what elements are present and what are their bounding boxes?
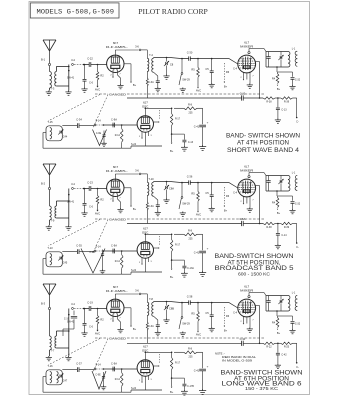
svg-text:R5: R5 [191, 192, 195, 196]
loop return wire (band 4 oscillator) [43, 133, 131, 149]
annotation text: band-switch position 4 [226, 133, 300, 155]
svg-text:C-13A: C-13A [187, 267, 194, 270]
svg-text:C-6A: C-6A [148, 205, 154, 208]
tank padder capacitor (band 4 section) [266, 52, 270, 68]
ground under V1 (band 5 section) [117, 199, 123, 213]
lead to C minus (band 5 section) [293, 224, 299, 250]
svg-text:R-38: R-38 [266, 226, 272, 229]
mixer grid cap (band 4 section) [248, 49, 266, 54]
grid shunt capacitor C-6 (band 6 section) [81, 308, 93, 337]
svg-text:AVC: AVC [95, 332, 100, 336]
svg-text:C-38: C-38 [187, 295, 193, 299]
capacitor C-32 (band 6 section) [278, 316, 301, 334]
svg-text:C-36: C-36 [187, 175, 193, 179]
ground right of coil (band 4 section) [65, 65, 71, 96]
coupling capacitor C-36 (band 5 section) [181, 175, 229, 185]
antenna A1 (band 4 section) [41, 40, 56, 62]
padder trimmer C45 (band 5 oscillator) [58, 255, 68, 264]
ground under mixer (band 5 section) [247, 200, 253, 212]
title box [30, 3, 119, 18]
svg-text:B+: B+ [133, 83, 137, 87]
capacitor C-19 (band 6 section) [63, 311, 77, 337]
resistor R4 (band 4 section) [272, 72, 281, 91]
svg-text:T-3: T-3 [51, 87, 55, 91]
coil winding in loop (band 5 oscillator) [50, 254, 52, 266]
capacitor C-13 (band 4 oscillator) [172, 134, 194, 151]
capacitor C-22 (band 4 section) [84, 57, 107, 67]
i-f coupling bus wire (band 6 section) [127, 343, 263, 345]
svg-text:S-24: S-24 [131, 387, 137, 390]
antenna coil L-1 (band 4 section) [292, 48, 298, 67]
oscillator plate arrow (band 4 oscillator) [154, 110, 160, 123]
V1 plate lead to B+ (band 4 section) [124, 64, 137, 87]
svg-text:C-17B: C-17B [187, 385, 194, 388]
svg-text:235: 235 [189, 355, 194, 358]
svg-text:C-32: C-32 [295, 203, 301, 206]
tube 6J7 oscillator (band 4 oscillator) [137, 101, 153, 133]
antenna lead-in wire (band 6 section) [49, 295, 51, 307]
decoupling resistor R-25 (band 6 section) [275, 342, 293, 349]
svg-text:C-30: C-30 [187, 51, 193, 55]
bypass capacitor C-13 (band 4 section) [275, 98, 287, 123]
oscillator coil L-2 (band 4 section) [288, 52, 290, 68]
plate resistor R-17 (band 4 oscillator) [170, 108, 180, 142]
trimmer capacitor C8 (band 4 section) [163, 57, 173, 80]
plate resistor R-17 (band 6 oscillator) [170, 352, 180, 386]
capacitor C5 (band 5 section) [205, 182, 214, 212]
antenna coil secondary (band 4 section) [55, 67, 69, 87]
svg-text:T-10: T-10 [148, 177, 154, 181]
oscillator bottom bus (band 5 oscillator) [131, 269, 162, 274]
primary return resistor (band 5 section) [146, 196, 148, 224]
mixer input lead (band 5 section) [229, 183, 238, 195]
coil tap switch SW-41 (band 4 section) [67, 66, 75, 80]
oscillator cathode leads (band 4 oscillator) [139, 131, 153, 146]
oscillator cathode leads (band 6 oscillator) [139, 375, 153, 390]
svg-text:3-6: 3-6 [135, 169, 139, 173]
series capacitor C-34 (band 4 oscillator) [62, 118, 94, 129]
svg-text:B+: B+ [170, 149, 174, 153]
svg-text:IN MODEL G-509: IN MODEL G-509 [222, 358, 253, 362]
secondary bypass capacitor C-6A (band 5 section) [148, 196, 161, 216]
svg-text:R-22: R-22 [266, 346, 272, 349]
antenna connector (band 6 section) [48, 307, 50, 336]
svg-text:B+: B+ [224, 329, 228, 333]
svg-text:C-32: C-32 [295, 323, 301, 326]
svg-text:AVC: AVC [95, 212, 100, 216]
svg-text:R-F AMPL.: R-F AMPL. [106, 289, 128, 293]
coil tap switch SW-41 (band 6 section) [67, 314, 75, 332]
resistor R5 to AVC (band 5 section) [191, 183, 201, 217]
capacitor C-9A (band 4 oscillator) [111, 118, 117, 128]
svg-text:GANGED: GANGED [109, 92, 126, 96]
svg-text:C-4: C-4 [233, 312, 238, 315]
svg-text:C-4: C-4 [233, 192, 238, 195]
tube V1 cathode pins (band 6 section) [110, 314, 121, 322]
svg-text:T-16: T-16 [47, 364, 53, 368]
svg-text:S-24: S-24 [131, 269, 137, 272]
switch S-14 (band 4 oscillator) [94, 120, 137, 126]
band switch 3-4 (band 5 section) [71, 182, 84, 189]
capacitor C-32 (band 4 section) [278, 72, 301, 90]
antenna coil T-7 primary (band 6 section) [50, 336, 55, 353]
series capacitor C-5A (band 5 section) [239, 217, 245, 226]
tuning capacitor section C-9E (band 6 oscillator) [92, 371, 106, 390]
resistor R4 (band 5 section) [272, 196, 281, 215]
svg-text:R-25: R-25 [284, 346, 290, 349]
svg-text:R-17: R-17 [175, 119, 181, 121]
svg-text:RED BAND IN DIAL: RED BAND IN DIAL [222, 355, 257, 359]
tube 6L7 mixer (band 5 section) [238, 165, 256, 197]
tube 6L7 mixer (band 6 section) [238, 285, 256, 317]
AVC label left (band 5 section) [95, 212, 100, 216]
svg-text:C8: C8 [170, 63, 174, 67]
capacitor C-19 (band 6 section) [84, 301, 107, 311]
padder trimmer C44 (band 4 oscillator) [58, 129, 68, 138]
oscillator plate feed (band 5 oscillator) [145, 234, 173, 242]
svg-text:C47: C47 [63, 380, 68, 383]
svg-text:C44: C44 [63, 136, 68, 139]
switch SW-29 (band 4 section) [179, 59, 190, 93]
antenna lead-in wire (band 4 section) [49, 51, 51, 63]
band switch shaft (dashed) (band 6 section) [224, 307, 230, 333]
decoupling resistor R-39 (band 4 section) [275, 97, 293, 104]
loop return wire (band 6 oscillator) [43, 377, 131, 393]
svg-text:C-19: C-19 [87, 301, 93, 305]
capacitor C-32 (band 5 section) [278, 196, 301, 214]
svg-text:C-: C- [296, 245, 299, 249]
svg-text:C-: C- [296, 120, 299, 124]
ground under mixer (band 4 section) [247, 76, 253, 88]
svg-text:C-41: C-41 [194, 126, 200, 129]
mixer grid cap (band 5 section) [248, 173, 266, 178]
svg-text:R-38: R-38 [266, 100, 272, 103]
oscillator plate arrow (band 5 oscillator) [154, 236, 160, 249]
svg-text:235: 235 [189, 237, 194, 240]
capacitor C-23 (band 5 section) [84, 181, 107, 191]
svg-text:C-41: C-41 [194, 370, 200, 373]
svg-text:MIXER: MIXER [240, 169, 254, 173]
AVC label left (band 6 section) [95, 332, 100, 336]
B+ feed arrow (band 4 oscillator) [170, 143, 174, 153]
svg-text:AT 4TH POSITION: AT 4TH POSITION [237, 139, 289, 146]
ground under V1 (band 6 section) [117, 319, 123, 333]
grid shunt capacitor C-6 (band 5 section) [81, 188, 93, 217]
svg-text:3-6: 3-6 [135, 45, 139, 49]
coil winding in loop (band 4 oscillator) [50, 128, 52, 140]
series capacitor C-37 (band 6 oscillator) [62, 362, 94, 373]
series capacitor C-10 (band 6 section) [240, 337, 246, 346]
tube V1 cathode pins (band 4 section) [110, 70, 121, 78]
oscillator bottom bus (band 4 oscillator) [131, 143, 162, 148]
svg-text:C-37: C-37 [76, 362, 82, 366]
i-f coupling bus wire (band 4 section) [127, 97, 263, 99]
capacitor C5 (band 6 section) [205, 302, 214, 332]
svg-text:C-6: C-6 [89, 206, 94, 209]
secondary bypass capacitor C-6A (band 6 section) [148, 316, 161, 336]
svg-text:R-39: R-39 [284, 226, 290, 229]
svg-text:C-35: C-35 [76, 244, 82, 248]
ground right of coil (band 6 section) [65, 309, 71, 361]
tank lead to divider (band 6 section) [276, 310, 292, 316]
grid leak resistor R-8 (band 6 oscillator) [174, 348, 203, 359]
B+ feed arrow (band 6 oscillator) [170, 387, 174, 395]
interstage transformer T-8 primary (band 6 section) [141, 294, 153, 316]
antenna coil T-9 primary (band 5 section) [50, 206, 55, 223]
resistor R2 (band 4 section) [96, 64, 104, 88]
oscillator coil T-16 (band 6 oscillator) [46, 364, 62, 385]
coil winding in loop (band 6 oscillator) [50, 372, 59, 384]
mixer input lead (band 4 section) [229, 59, 238, 71]
ground right of coil (band 5 section) [65, 189, 71, 231]
svg-text:NOTE :-: NOTE :- [215, 351, 225, 355]
V1 plate lead to B+ (band 6 section) [124, 308, 137, 331]
tank lead to divider (band 5 section) [276, 190, 292, 196]
svg-text:B-3: B-3 [41, 302, 46, 306]
B+ feed arrow (band 5 oscillator) [170, 269, 174, 279]
antenna connector (band 4 section) [48, 63, 50, 71]
tank trimmer capacitor C-31 (band 5 section) [278, 176, 283, 192]
ground under primary (band 6 section) [46, 350, 52, 361]
svg-text:SW-41: SW-41 [67, 321, 75, 324]
grid resistor R-14 (band 4 oscillator) [115, 124, 123, 148]
svg-text:T-15: T-15 [47, 120, 53, 124]
svg-text:C-9A: C-9A [111, 244, 117, 248]
resistor R5 to AVC (band 4 section) [191, 59, 201, 93]
capacitor C-41 (band 5 oscillator) [194, 234, 209, 276]
decoupling resistor R-39 (band 5 section) [275, 222, 293, 229]
tube 6K7 R-F amplifier (band 5 section) [106, 165, 128, 197]
svg-text:C5: C5 [205, 67, 209, 71]
tuning capacitor section C-9E (band 4 oscillator) [93, 130, 107, 147]
tube 6K7 R-F amplifier (band 4 section) [106, 41, 128, 73]
svg-text:B+: B+ [277, 87, 281, 91]
ground under primary (band 5 section) [46, 220, 52, 230]
svg-text:B+: B+ [277, 211, 281, 215]
svg-text:R2: R2 [100, 74, 104, 78]
svg-text:C-14: C-14 [281, 234, 287, 237]
secondary bypass capacitor C-6A (band 4 section) [148, 72, 161, 92]
grid resistor R-14 (band 6 oscillator) [115, 368, 123, 392]
capacitor C-41 (band 6 oscillator) [194, 352, 209, 394]
svg-text:GANGED: GANGED [109, 336, 126, 340]
svg-text:C-32: C-32 [295, 79, 301, 82]
decoupling resistor R-38 (band 4 section) [263, 97, 275, 104]
bypass capacitor C-42 (band 6 section) [275, 343, 287, 368]
svg-text:T-7: T-7 [51, 349, 55, 353]
GANGED dashed gang line (band 5 section) [48, 217, 264, 253]
annotation text: band-switch position 6 [221, 370, 303, 392]
svg-text:C-5A: C-5A [239, 217, 245, 221]
svg-text:C-6A: C-6A [148, 325, 154, 328]
tube 6L7 mixer (band 4 section) [238, 41, 256, 73]
primary return resistor (band 4 section) [146, 72, 148, 99]
svg-text:R2: R2 [100, 198, 104, 202]
svg-text:C-9E: C-9E [96, 133, 102, 135]
annotation text: band-switch position 5 [215, 253, 295, 276]
decoupling resistor R-38 (band 5 section) [263, 222, 275, 229]
ground under primary (band 4 section) [46, 88, 52, 95]
svg-text:C-13: C-13 [188, 141, 194, 144]
trimmer capacitor C8A (band 5 section) [163, 181, 174, 204]
svg-text:B+: B+ [277, 331, 281, 335]
svg-text:AVC: AVC [196, 333, 201, 337]
svg-text:AVC: AVC [196, 213, 201, 217]
svg-text:SW-29: SW-29 [182, 79, 190, 82]
svg-text:B+: B+ [224, 209, 228, 213]
capacitor C-13A (band 5 oscillator) [172, 260, 195, 277]
svg-text:R-F AMPL.: R-F AMPL. [106, 169, 128, 173]
svg-text:+: + [207, 121, 209, 125]
switch SW-29 (band 6 section) [179, 303, 190, 337]
oscillator coil T-13 (band 5 oscillator) [46, 246, 62, 267]
capacitor C-9A (band 6 oscillator) [111, 362, 117, 372]
mixer cathode pins (band 4 section) [240, 72, 254, 81]
padder trimmer C47 (band 6 oscillator) [58, 373, 68, 382]
tube V1 grid cap lead (band 5 section) [115, 169, 141, 180]
oscillator plate feed (band 4 oscillator) [145, 108, 173, 116]
svg-text:R-14: R-14 [115, 134, 121, 137]
mixer plate lead (band 6 section) [256, 306, 260, 344]
band switch 3-4 (band 6 section) [71, 302, 84, 309]
tank trimmer capacitor C-31 (band 6 section) [278, 296, 283, 312]
svg-text:MIXER: MIXER [240, 45, 254, 49]
interstage transformer T-10 primary (band 5 section) [141, 174, 154, 196]
resistor R4 (band 6 section) [272, 316, 281, 335]
mixer cathode pins (band 5 section) [240, 196, 254, 205]
resistor R2 (band 5 section) [96, 188, 104, 212]
AVC label left (band 4 section) [95, 88, 100, 92]
tuning capacitor section C-9E (band 5 oscillator) [81, 249, 105, 274]
svg-text:R-14: R-14 [115, 378, 121, 381]
svg-text:C-: C- [296, 365, 299, 369]
svg-text:C-10: C-10 [240, 92, 246, 96]
svg-text:R-39: R-39 [284, 100, 290, 103]
ground under mixer (band 6 section) [247, 320, 253, 332]
resistor R2 (band 6 section) [96, 308, 104, 332]
svg-text:GANGED: GANGED [109, 217, 126, 221]
svg-text:B+: B+ [170, 275, 174, 279]
svg-text:C5: C5 [205, 311, 209, 315]
loop return wire (band 5 oscillator) [43, 259, 131, 275]
svg-text:S-14: S-14 [95, 246, 101, 249]
antenna A3 (band 6 section) [41, 284, 56, 306]
antenna connector (band 5 section) [48, 187, 50, 206]
svg-text:C-23: C-23 [87, 181, 93, 185]
svg-text:+: + [207, 247, 209, 251]
svg-text:C-34: C-34 [76, 118, 82, 122]
svg-text:R-17: R-17 [175, 363, 181, 365]
series capacitor C-10 (band 4 section) [240, 92, 246, 101]
svg-text:C-6: C-6 [89, 82, 94, 85]
tube V1 grid cap lead (band 6 section) [115, 289, 141, 300]
oscillator tank frame (band 4 section) [260, 52, 289, 68]
grid resistor R-14 (band 5 oscillator) [115, 250, 123, 274]
coupling capacitor C-38 (band 6 section) [181, 295, 229, 305]
svg-text:R-17: R-17 [175, 245, 181, 247]
svg-text:C-6: C-6 [89, 326, 94, 329]
switch S-14 (band 5 oscillator) [94, 246, 137, 252]
svg-text:C-9E: C-9E [89, 252, 95, 254]
antenna A2 (band 5 section) [41, 164, 56, 186]
trimmer capacitor C8B (band 6 section) [163, 301, 174, 324]
svg-text:S-14: S-14 [95, 120, 101, 123]
svg-text:MODELS G-508,G-509: MODELS G-508,G-509 [37, 9, 115, 17]
svg-text:C-9A: C-9A [111, 362, 117, 366]
antenna coil L-1 (band 6 section) [292, 292, 298, 311]
svg-text:R2: R2 [100, 318, 104, 322]
capacitor C-41 (band 4 oscillator) [194, 108, 209, 150]
oscillator tank frame (band 5 section) [260, 176, 289, 192]
svg-text:R-14: R-14 [115, 260, 121, 263]
svg-text:T-8: T-8 [149, 297, 153, 301]
switch S-14 (band 6 oscillator) [94, 364, 137, 370]
svg-text:B+: B+ [224, 85, 228, 89]
svg-text:SW-41: SW-41 [67, 77, 75, 80]
svg-text:600 - 1500 KC: 600 - 1500 KC [238, 271, 270, 276]
svg-text:T-13: T-13 [47, 246, 53, 250]
oscillator plate arrow (band 6 oscillator) [154, 354, 160, 367]
svg-text:150 - 375 KC: 150 - 375 KC [245, 386, 278, 391]
mixer plate lead (band 4 section) [256, 62, 260, 99]
svg-text:3-6: 3-6 [135, 289, 139, 293]
svg-text:AVC: AVC [196, 89, 201, 93]
svg-text:B-1: B-1 [41, 58, 46, 62]
svg-text:R-F AMPL.: R-F AMPL. [106, 45, 128, 49]
resistor R5 to AVC (band 6 section) [191, 303, 201, 337]
tube 6J7 oscillator (band 5 oscillator) [137, 227, 153, 259]
svg-text:R5: R5 [191, 68, 195, 72]
primary return resistor (band 6 section) [146, 316, 148, 344]
tank padder capacitor (band 6 section) [266, 296, 270, 312]
oscillator cathode leads (band 5 oscillator) [139, 257, 153, 272]
series capacitor C-35 (band 5 oscillator) [62, 244, 94, 255]
tank trimmer capacitor C-31 (band 4 section) [278, 52, 283, 68]
tank padder capacitor (band 5 section) [266, 176, 270, 192]
svg-text:C8A: C8A [169, 187, 174, 191]
svg-text:C-13: C-13 [281, 108, 287, 111]
transformer T-4 secondary (band 4 section) [152, 58, 182, 73]
antenna coil L-1 (band 5 section) [292, 172, 298, 191]
oscillator plate feed (band 6 oscillator) [145, 352, 173, 360]
antenna coil T-3 primary (band 4 section) [50, 72, 55, 91]
svg-text:C-19: C-19 [64, 318, 70, 321]
svg-text:C-9E: C-9E [95, 375, 101, 377]
tube 6K7 R-F amplifier (band 6 section) [106, 285, 128, 316]
svg-text:C-10: C-10 [240, 337, 246, 341]
svg-text:C5: C5 [205, 191, 209, 195]
svg-text:SW-29: SW-29 [182, 203, 190, 206]
svg-text:AVC: AVC [95, 88, 100, 92]
tube V1 grid cap lead (band 4 section) [115, 45, 141, 56]
tank lead to divider (band 4 section) [276, 66, 292, 72]
band switch 3-4 (band 4 section) [71, 58, 84, 65]
svg-text:3-4: 3-4 [71, 302, 75, 306]
antenna coil secondary (band 5 section) [55, 201, 69, 218]
transformer T-8 secondary (band 6 section) [152, 302, 182, 317]
svg-text:C-41: C-41 [194, 252, 200, 255]
svg-text:+: + [207, 365, 209, 369]
oscillator tank frame (band 6 section) [260, 296, 289, 312]
svg-text:S-24: S-24 [131, 143, 137, 146]
ground under V1 (band 4 section) [117, 75, 123, 89]
coupling capacitor C-30 (band 4 section) [181, 51, 229, 61]
svg-text:T-4: T-4 [149, 53, 153, 57]
svg-text:R-8: R-8 [188, 230, 193, 233]
mixer input lead (band 6 section) [229, 303, 238, 315]
svg-text:C-9A: C-9A [111, 118, 117, 122]
oscillator coil T-15 (band 4 oscillator) [46, 120, 62, 141]
